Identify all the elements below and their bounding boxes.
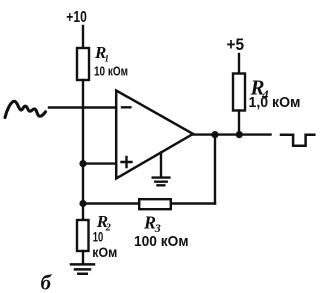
ground (op-amp) bars	[153, 178, 170, 186]
ground (R2)	[71, 264, 94, 273]
svg-text:кОм: кОм	[92, 244, 117, 260]
wire R1 to divider node	[82, 80, 84, 204]
svg-text:2: 2	[105, 223, 111, 234]
wire input to inverting input	[49, 106, 116, 108]
svg-text:100 кОм: 100 кОм	[134, 233, 189, 250]
resistor R4	[233, 74, 245, 111]
resistor R1	[77, 48, 89, 80]
wire feedback vertical	[214, 135, 216, 204]
input signal squiggle	[5, 101, 46, 117]
svg-text:+5: +5	[227, 35, 245, 54]
node junction divider tap	[79, 160, 86, 167]
svg-text:1: 1	[105, 54, 110, 64]
wire divider tap to non-inverting input	[83, 162, 116, 164]
op-amp inverting input minus sign	[122, 106, 130, 108]
node output junction R4	[236, 131, 243, 138]
ground (op-amp) stem	[160, 153, 162, 177]
wire node to R2	[82, 204, 84, 221]
wire +5 to R4	[238, 54, 240, 74]
svg-text:+10: +10	[66, 9, 87, 26]
wire R4 to output	[238, 111, 240, 135]
wire op-amp output	[192, 133, 271, 135]
svg-text:10 кОм: 10 кОм	[94, 64, 128, 79]
svg-text:б: б	[41, 271, 53, 293]
resistor R3	[139, 199, 171, 209]
wire feedback horizontal	[171, 202, 215, 204]
node output junction feedback	[211, 131, 218, 138]
wire R2 to ground	[82, 251, 84, 263]
wire R3 to divider node	[83, 202, 139, 204]
resistor R2	[77, 220, 89, 251]
svg-text:10: 10	[93, 229, 104, 245]
svg-text:1,0 кОм: 1,0 кОм	[249, 95, 301, 111]
node divider junction	[79, 200, 86, 207]
output pulse waveform symbol	[281, 135, 314, 146]
op-amp non-inverting input plus sign	[122, 157, 132, 167]
wire +10 to R1	[82, 26, 84, 48]
op-amp U1 triangle	[116, 91, 193, 179]
